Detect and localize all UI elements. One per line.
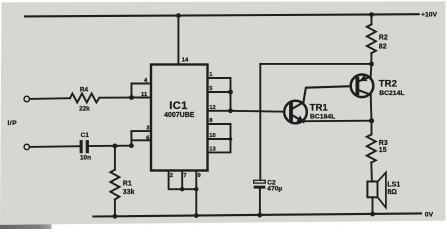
svg-text:C1: C1 [81, 132, 90, 139]
svg-text:TR2: TR2 [379, 79, 397, 90]
svg-text:10n: 10n [80, 154, 91, 161]
svg-text:33k: 33k [123, 189, 135, 196]
svg-text:I/P: I/P [8, 120, 18, 127]
svg-text:10: 10 [209, 133, 215, 139]
svg-text:4007UBE: 4007UBE [164, 112, 195, 119]
svg-text:R2: R2 [379, 34, 388, 41]
svg-text:R1: R1 [123, 181, 132, 188]
svg-text:R3: R3 [379, 140, 388, 147]
svg-text:BC214L: BC214L [379, 90, 404, 97]
svg-text:15: 15 [379, 147, 387, 154]
svg-text:14: 14 [182, 57, 189, 63]
svg-text:13: 13 [209, 146, 216, 152]
svg-text:82: 82 [379, 43, 387, 50]
svg-text:0V: 0V [425, 211, 434, 218]
svg-text:LS1: LS1 [387, 182, 400, 189]
svg-text:8Ω: 8Ω [387, 189, 397, 196]
svg-text:470µ: 470µ [267, 186, 282, 193]
svg-text:22k: 22k [79, 105, 90, 112]
svg-text:BC184L: BC184L [310, 114, 335, 121]
svg-text:+10V: +10V [421, 11, 438, 18]
svg-text:12: 12 [209, 105, 215, 111]
svg-text:7: 7 [183, 173, 186, 179]
svg-text:IC1: IC1 [169, 100, 188, 112]
svg-text:2: 2 [170, 173, 173, 179]
svg-text:R4: R4 [80, 86, 89, 93]
svg-text:11: 11 [141, 92, 148, 98]
svg-text:TR1: TR1 [310, 102, 329, 113]
